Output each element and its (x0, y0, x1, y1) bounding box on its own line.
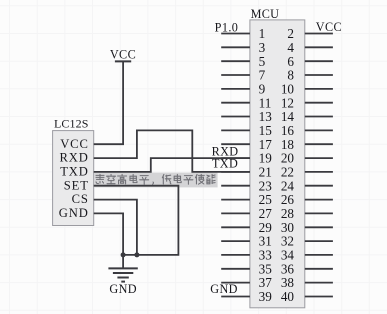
svg-text:11: 11 (259, 95, 272, 110)
svg-text:10: 10 (281, 82, 295, 97)
MCU pin 7 (stub + number) (221, 68, 265, 83)
svg-text:GND: GND (59, 206, 89, 220)
svg-text:14: 14 (281, 109, 295, 124)
svg-text:TXD: TXD (212, 157, 238, 171)
MCU pin 31 (stub + number) (221, 234, 272, 249)
svg-text:TXD: TXD (60, 165, 89, 179)
svg-text:24: 24 (281, 178, 295, 193)
svg-text:17: 17 (259, 137, 273, 152)
MCU pin 14 (stub + number) (281, 109, 333, 124)
svg-text:39: 39 (259, 289, 273, 304)
svg-text:GND: GND (210, 282, 238, 296)
svg-text:RXD: RXD (60, 151, 89, 165)
MCU pin 9 (stub + number) (221, 82, 265, 97)
MCU pin 17 (stub + number) (221, 137, 272, 152)
svg-text:5: 5 (259, 54, 266, 69)
svg-text:VCC: VCC (60, 137, 89, 151)
svg-text:P1.0: P1.0 (215, 20, 239, 34)
MCU pin 26 (stub + number) (281, 192, 333, 207)
svg-text:6: 6 (287, 54, 294, 69)
svg-text:19: 19 (259, 151, 273, 166)
svg-text:22: 22 (281, 165, 294, 180)
MCU pin 38 (stub + number) (281, 275, 333, 290)
MCU pin 4 (stub + number) (287, 40, 332, 55)
svg-text:MCU: MCU (251, 7, 280, 21)
wire VCC net: LC12S.VCC up to VCC symbol (94, 61, 123, 144)
svg-text:26: 26 (281, 192, 295, 207)
note text: 悬空高电平，低电平使能 (drawn strokes) (96, 174, 215, 184)
svg-text:SET: SET (64, 178, 89, 192)
MCU pin 39 (stub + number) (221, 289, 272, 304)
MCU pin 23 (stub + number) (221, 178, 272, 193)
svg-text:20: 20 (281, 151, 295, 166)
MCU pin 15 (stub + number) (221, 123, 272, 138)
svg-text:3: 3 (259, 40, 266, 55)
svg-text:12: 12 (281, 95, 294, 110)
wire GND net: LC12S.GND down to ground symbol (94, 213, 123, 268)
ground symbol (108, 268, 137, 281)
junction dot at CS drop (134, 252, 139, 257)
MCU pin 29 (stub + number) (221, 220, 272, 235)
junction dot at GND drop (121, 252, 126, 257)
MCU pin 40 (stub + number) (281, 289, 333, 304)
wire CS net: LC12S.CS down to ground bus (94, 200, 137, 255)
MCU pin 10 (stub + number) (281, 82, 333, 97)
svg-text:40: 40 (281, 289, 295, 304)
MCU pin 33 (stub + number) (221, 248, 272, 263)
svg-text:33: 33 (259, 248, 273, 263)
svg-text:18: 18 (281, 137, 295, 152)
MCU pin 1 (stub + number) (221, 26, 265, 41)
svg-text:38: 38 (281, 275, 295, 290)
svg-text:CS: CS (72, 192, 89, 206)
MCU pin 8 (stub + number) (287, 68, 332, 83)
svg-text:2: 2 (287, 26, 294, 41)
wire TXD net: LC12S.TXD up to MCU pin 19 (94, 158, 250, 172)
svg-text:35: 35 (259, 261, 273, 276)
MCU pin 27 (stub + number) (221, 206, 272, 221)
MCU pin 18 (stub + number) (281, 137, 333, 152)
note highlight box (94, 173, 217, 188)
svg-text:29: 29 (259, 220, 273, 235)
MCU pin 32 (stub + number) (281, 234, 333, 249)
MCU pin 12 (stub + number) (281, 95, 333, 110)
svg-text:28: 28 (281, 206, 295, 221)
svg-text:37: 37 (259, 275, 273, 290)
MCU pin 6 (stub + number) (287, 54, 332, 69)
MCU pin 5 (stub + number) (221, 54, 265, 69)
MCU pin 20 (stub + number) (281, 151, 333, 166)
MCU pin 21 (stub + number) (221, 165, 272, 180)
MCU pin 25 (stub + number) (221, 192, 272, 207)
wire SET net: LC12S.SET down to ground bus (94, 186, 179, 255)
MCU pin 3 (stub + number) (221, 40, 265, 55)
wire RXD net: LC12S.RXD over to MCU pin 21 (94, 130, 250, 172)
svg-text:VCC: VCC (110, 48, 136, 62)
svg-text:13: 13 (259, 109, 273, 124)
svg-text:LC12S: LC12S (54, 117, 89, 131)
svg-text:21: 21 (259, 165, 272, 180)
svg-text:16: 16 (281, 123, 295, 138)
MCU pin 19 (stub + number) (221, 151, 272, 166)
svg-text:25: 25 (259, 192, 273, 207)
MCU pin 24 (stub + number) (281, 178, 333, 193)
module U1 LC12S body (53, 131, 94, 226)
IC U2 MCU body (250, 20, 305, 308)
svg-text:23: 23 (259, 178, 273, 193)
svg-text:15: 15 (259, 123, 273, 138)
MCU pin 35 (stub + number) (221, 261, 272, 276)
svg-text:8: 8 (287, 68, 294, 83)
svg-text:9: 9 (259, 82, 266, 97)
MCU pin 2 (stub + number) (287, 26, 332, 41)
svg-text:30: 30 (281, 220, 295, 235)
power symbol VCC (110, 48, 136, 62)
MCU pin 16 (stub + number) (281, 123, 333, 138)
svg-text:27: 27 (259, 206, 273, 221)
MCU pin 22 (stub + number) (281, 165, 333, 180)
svg-text:VCC: VCC (316, 20, 342, 34)
MCU pin 11 (stub + number) (221, 95, 271, 110)
svg-text:4: 4 (287, 40, 294, 55)
svg-text:GND: GND (109, 282, 137, 296)
svg-text:36: 36 (281, 261, 295, 276)
MCU pin 28 (stub + number) (281, 206, 333, 221)
MCU pin 34 (stub + number) (281, 248, 333, 263)
MCU pin 36 (stub + number) (281, 261, 333, 276)
svg-text:1: 1 (259, 26, 266, 41)
MCU pin 13 (stub + number) (221, 109, 272, 124)
svg-text:31: 31 (259, 234, 272, 249)
svg-text:34: 34 (281, 248, 295, 263)
MCU pin 37 (stub + number) (221, 275, 272, 290)
MCU pin 30 (stub + number) (281, 220, 333, 235)
svg-text:32: 32 (281, 234, 294, 249)
svg-text:7: 7 (259, 68, 266, 83)
